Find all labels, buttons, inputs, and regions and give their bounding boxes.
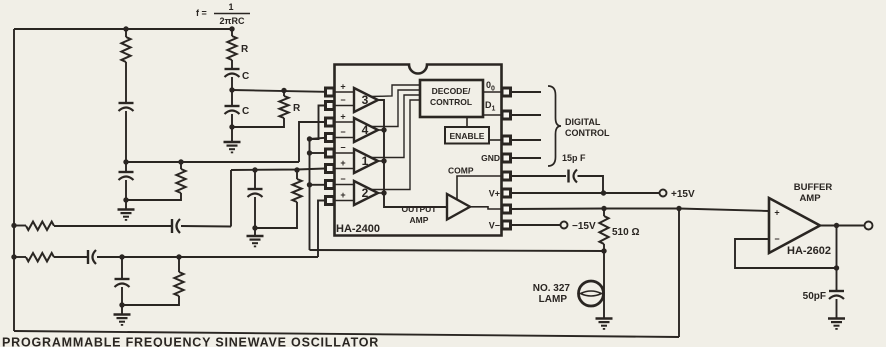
node N1 top corner bbox=[229, 26, 234, 31]
pin R4 (GND) bbox=[502, 154, 511, 162]
wire enable box to pin bbox=[489, 139, 502, 141]
pin R7 (OUT) bbox=[502, 205, 511, 213]
node A (network 1 tap) bbox=[229, 87, 234, 92]
label D1 bbox=[485, 100, 496, 113]
wire C5 to V+ line bbox=[578, 176, 604, 193]
label BUFFER AMP bbox=[794, 182, 833, 204]
node amp4 out bbox=[378, 127, 387, 132]
wire row B riser to pin +2 bbox=[318, 201, 325, 258]
svg-text:C: C bbox=[242, 71, 249, 82]
resistor R (network 1 shunt) bbox=[232, 88, 289, 127]
label -15V bbox=[572, 221, 596, 232]
lamp DS1 NO.327 bbox=[579, 251, 605, 319]
svg-text:1: 1 bbox=[362, 154, 369, 168]
label caption PROGRAMMABLE FREQUENCY SINEWAVE OSCILLATOR bbox=[2, 336, 379, 347]
ground network 4 bbox=[114, 305, 131, 325]
label DIGITAL CONTROL bbox=[565, 117, 610, 138]
wire tap to pin +3 bbox=[232, 90, 325, 92]
svg-text:−: − bbox=[340, 127, 345, 137]
op-amp channel 3 bbox=[354, 88, 378, 112]
pin R3 (ENABLE) bbox=[502, 136, 511, 144]
wire buffer feedback bbox=[735, 239, 837, 268]
svg-text:ENABLE: ENABLE bbox=[450, 131, 485, 141]
svg-text:COMP: COMP bbox=[448, 166, 474, 176]
wire stair to pin +4 bbox=[299, 122, 325, 162]
svg-text:R: R bbox=[293, 103, 301, 114]
label COMP bbox=[448, 166, 474, 176]
wire inverting bus bbox=[310, 106, 326, 251]
capacitor C6 50pF bbox=[829, 268, 844, 319]
resistor R2 series bbox=[121, 29, 130, 103]
node amp2 out bbox=[378, 190, 387, 195]
ground network 3 bbox=[247, 228, 264, 246]
svg-text:OUTPUT: OUTPUT bbox=[402, 204, 438, 214]
capacitor C2 shunt bbox=[119, 162, 134, 200]
op-amp U1 HA-2400 body bbox=[335, 65, 502, 236]
label R (network 1 shunt) bbox=[293, 103, 301, 114]
op-amp U3 output amp bbox=[447, 194, 470, 220]
svg-text:3: 3 bbox=[362, 93, 369, 107]
svg-text:DIGITAL: DIGITAL bbox=[565, 117, 601, 127]
pin L7 (-) bbox=[326, 174, 355, 189]
label 510 ohm bbox=[612, 227, 639, 238]
node loop tap bbox=[676, 206, 681, 211]
label HA-2400 bbox=[336, 223, 380, 235]
svg-text:−: − bbox=[340, 174, 345, 184]
wire enable amp1 bbox=[371, 95, 420, 158]
capacitor C4 shunt bbox=[115, 257, 130, 305]
pin L5 (-) bbox=[326, 143, 355, 158]
wire decode to D0 pin bbox=[483, 91, 502, 93]
svg-text:+: + bbox=[774, 208, 779, 218]
capacitor C3 shunt bbox=[248, 170, 263, 228]
node amp1 out bbox=[378, 158, 387, 163]
svg-text:+: + bbox=[340, 112, 345, 122]
wire ENABLE out bbox=[511, 139, 542, 141]
svg-text:−15V: −15V bbox=[572, 221, 596, 232]
capacitor C (network 1 shunt) bbox=[225, 90, 240, 127]
label GND bbox=[481, 153, 500, 163]
node V+ junction bbox=[601, 190, 606, 195]
wire top rail bbox=[14, 28, 232, 30]
wire right loop riser bbox=[678, 209, 680, 338]
capacitor C4 series bbox=[88, 250, 318, 264]
svg-text:GND: GND bbox=[481, 153, 500, 163]
wire decode to D1 pin bbox=[483, 114, 502, 116]
ground C6 bbox=[828, 319, 845, 329]
svg-text:+15V: +15V bbox=[671, 189, 695, 200]
wire D0 out bbox=[511, 91, 542, 93]
node feedback bbox=[834, 265, 839, 270]
svg-text:−: − bbox=[340, 143, 345, 153]
wire feedback to lamp node bbox=[310, 250, 605, 251]
op-amp channel 2 bbox=[354, 181, 378, 205]
pin L2 (-) bbox=[326, 95, 355, 110]
svg-text:AMP: AMP bbox=[799, 193, 821, 204]
node N2b bbox=[123, 197, 128, 202]
wire network 2 bus bbox=[126, 161, 299, 163]
svg-text:HA-2602: HA-2602 bbox=[787, 245, 831, 257]
node N3b bbox=[252, 225, 257, 230]
svg-text:HA-2400: HA-2400 bbox=[336, 223, 380, 235]
svg-text:LAMP: LAMP bbox=[539, 294, 568, 305]
capacitor C2 series bbox=[119, 103, 134, 162]
node E3 on inverting bus bbox=[307, 182, 325, 187]
label +15V bbox=[671, 189, 695, 200]
node N4b bbox=[119, 302, 124, 307]
wire bottom rail (feedback loop) bbox=[14, 331, 679, 337]
resistor R2 shunt bbox=[126, 159, 186, 200]
label C (network 1 series) bbox=[242, 71, 249, 82]
capacitor C (network 1 series) bbox=[225, 69, 240, 90]
node B (network 2 tap) bbox=[123, 159, 128, 164]
resistor R5 510ohm bbox=[599, 209, 608, 252]
svg-text:C: C bbox=[242, 106, 249, 117]
wire enable amp4 bbox=[371, 90, 420, 127]
svg-text:+: + bbox=[340, 190, 345, 200]
label 15pF bbox=[562, 153, 586, 163]
label OUTPUT AMP bbox=[402, 204, 438, 225]
label formula f=1/2piRC bbox=[196, 2, 250, 26]
wire COMP external bbox=[511, 175, 567, 177]
resistor R4 shunt bbox=[122, 254, 184, 305]
wire enable amp2 bbox=[371, 100, 420, 190]
wire decode to enable bbox=[466, 117, 468, 127]
node E1 on inverting bus bbox=[307, 136, 325, 141]
op-amp channel 1 bbox=[354, 149, 378, 173]
brace digital control bbox=[548, 86, 561, 166]
svg-text:NO. 327: NO. 327 bbox=[533, 283, 571, 294]
pin L4 (-) bbox=[326, 127, 355, 142]
node C (network 3 tap) bbox=[252, 167, 257, 172]
pin R6 (V+) bbox=[502, 189, 511, 197]
op-amp U4 HA-2602 buffer bbox=[769, 198, 820, 253]
ground network 1 bbox=[224, 127, 241, 152]
resistor R (network 1 series) bbox=[227, 29, 236, 69]
svg-text:R: R bbox=[241, 44, 249, 55]
svg-text:f =: f = bbox=[196, 8, 207, 18]
label V- bbox=[489, 221, 500, 231]
terminal output bbox=[865, 222, 873, 230]
node N2 top junction bbox=[123, 26, 128, 31]
svg-text:CONTROL: CONTROL bbox=[430, 97, 472, 107]
wire V+ to terminal bbox=[511, 192, 660, 194]
svg-text:BUFFER: BUFFER bbox=[794, 182, 833, 193]
wire D1 out bbox=[511, 114, 542, 116]
label D0 bbox=[486, 80, 495, 93]
node buffer out bbox=[834, 223, 839, 228]
label R (network 1) bbox=[241, 44, 249, 55]
node E2 on inverting bus bbox=[307, 150, 325, 155]
node D (network 4 tap) bbox=[119, 254, 124, 259]
svg-text:−: − bbox=[774, 234, 779, 244]
pin R1 (D0) bbox=[502, 88, 511, 96]
resistor R4 series bbox=[14, 253, 87, 261]
pin L1 (+) bbox=[326, 82, 355, 97]
svg-text:2: 2 bbox=[362, 186, 369, 200]
pin R2 (D1) bbox=[502, 111, 511, 119]
svg-text:510 Ω: 510 Ω bbox=[612, 227, 639, 238]
enable box bbox=[445, 127, 489, 144]
wire row A riser bbox=[230, 170, 232, 227]
label HA-2602 bbox=[787, 245, 831, 257]
svg-text:1: 1 bbox=[228, 2, 233, 12]
svg-text:V−: V− bbox=[489, 221, 500, 231]
wire network 3 bus bbox=[231, 169, 325, 171]
wire OUT line bbox=[511, 209, 770, 212]
svg-text:−: − bbox=[340, 95, 345, 105]
op-amp channel 4 bbox=[354, 118, 378, 142]
svg-text:DECODE/: DECODE/ bbox=[432, 86, 471, 96]
terminal -15V bbox=[561, 222, 568, 229]
svg-text:+: + bbox=[340, 82, 345, 92]
decoder U2 DECODE/CONTROL bbox=[420, 80, 483, 117]
pin L8 (+) bbox=[326, 190, 355, 205]
label 50pF bbox=[803, 291, 826, 302]
wire GND out bbox=[511, 157, 542, 159]
wire feedback riser bbox=[836, 226, 838, 269]
wire COMP internal bbox=[457, 176, 502, 200]
svg-text:50pF: 50pF bbox=[803, 291, 826, 302]
wire output amp to pin bbox=[470, 207, 502, 209]
label C (network 1 shunt) bbox=[242, 106, 249, 117]
svg-text:AMP: AMP bbox=[410, 215, 429, 225]
wire V- to terminal bbox=[511, 224, 561, 226]
capacitor C3 series bbox=[172, 219, 231, 233]
svg-text:+: + bbox=[340, 158, 345, 168]
node N4 rail tap bbox=[11, 254, 16, 259]
wire enable amp3 bbox=[371, 85, 420, 97]
resistor R3 series bbox=[14, 222, 171, 230]
pin R8 (V-) bbox=[502, 221, 511, 229]
svg-text:15p F: 15p F bbox=[562, 153, 586, 163]
svg-text:4: 4 bbox=[362, 123, 369, 137]
wire buffer output bbox=[820, 225, 864, 227]
svg-text:V+: V+ bbox=[489, 189, 500, 199]
terminal +15V bbox=[660, 190, 667, 197]
node N3 rail tap bbox=[11, 223, 16, 228]
capacitor C5 15pF bbox=[569, 170, 578, 183]
node N1b bbox=[229, 124, 234, 129]
ground lamp bbox=[596, 319, 613, 329]
svg-text:2πRC: 2πRC bbox=[220, 16, 245, 26]
resistor R3 shunt bbox=[255, 167, 302, 228]
wire amp output bus bbox=[378, 100, 447, 207]
pin R5 (COMP) bbox=[502, 172, 511, 180]
svg-text:PROGRAMMABLE FREQUENCY SINEWAV: PROGRAMMABLE FREQUENCY SINEWAVE OSCILLAT… bbox=[2, 336, 379, 347]
svg-text:CONTROL: CONTROL bbox=[565, 128, 610, 138]
node 510 top bbox=[601, 206, 606, 211]
ground network 2 bbox=[118, 200, 135, 220]
pin L6 (+) bbox=[326, 158, 355, 173]
label NO. 327 LAMP bbox=[533, 283, 571, 305]
node lamp top bbox=[601, 248, 606, 253]
pin L3 (+) bbox=[326, 112, 355, 127]
wire left rail bbox=[13, 29, 15, 331]
label V+ bbox=[489, 189, 500, 199]
